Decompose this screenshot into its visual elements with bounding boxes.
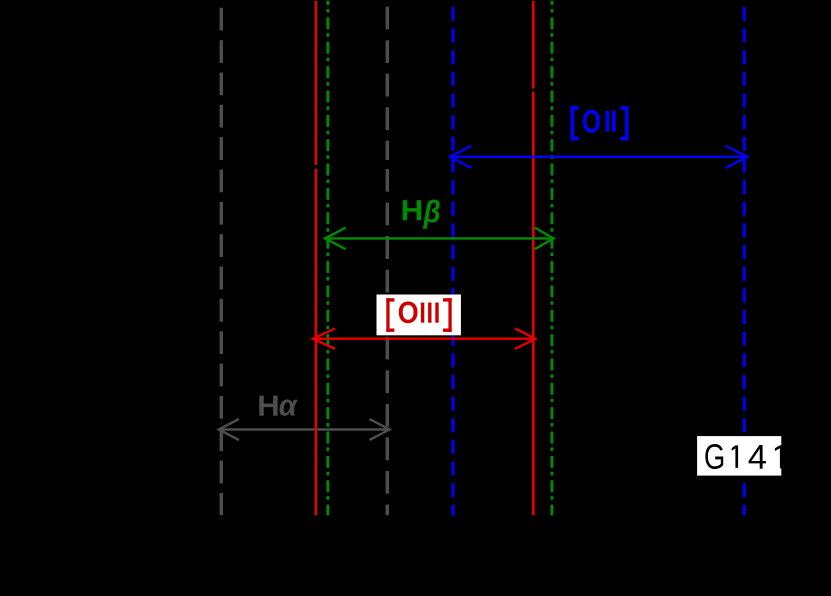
red solid line 2 (lower segment) <box>532 92 535 516</box>
red solid line 1 (lower segment) <box>314 169 317 516</box>
red solid line 1 (upper segment) <box>314 1 317 165</box>
G141 white label box (covers blue line 2) <box>697 436 781 476</box>
label Hbeta <box>403 199 440 228</box>
blue double arrow [OII] <box>450 146 747 168</box>
blue dashed line 1 <box>452 2 455 516</box>
] bracket <box>448 298 451 332</box>
digit 4 <box>749 445 766 469</box>
gray dashed line 2 (Halpha red limit) <box>386 2 390 160</box>
label Halpha <box>259 396 297 416</box>
[OIII] red text <box>386 298 451 332</box>
green dashdot line 1 <box>326 1 329 516</box>
digit 1 (clipped by box edge) <box>780 445 783 468</box>
] bracket <box>625 106 629 140</box>
O <box>583 110 600 133</box>
green double arrow Hbeta <box>325 228 553 250</box>
O <box>399 301 418 323</box>
red double arrow [OIII] <box>313 328 535 349</box>
gray dashed line 1 (Halpha blue limit) <box>220 2 224 515</box>
digit 1 <box>735 445 738 467</box>
green dashdot line 2 <box>551 1 554 516</box>
II <box>606 111 610 132</box>
gray double arrow Halpha <box>219 419 390 440</box>
label [OII] blue <box>571 106 629 140</box>
G141 black text <box>705 444 782 469</box>
[ bracket <box>571 106 575 140</box>
blue dashed line 2 <box>743 2 746 516</box>
[ bracket: stem, top arm, bottom arm <box>386 298 389 332</box>
G <box>705 444 723 469</box>
III <box>421 303 424 323</box>
red solid line 2 (upper segment) <box>532 1 535 89</box>
[OIII] white label box (covers blue line 1) <box>377 295 461 336</box>
